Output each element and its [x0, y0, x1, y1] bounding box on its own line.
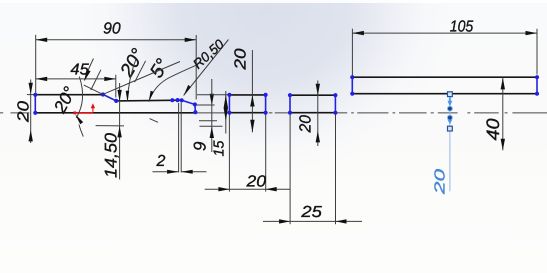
- angular dimension 20deg arc: [75, 77, 83, 137]
- svg-text:90: 90: [103, 20, 121, 37]
- chamfer angle 20deg arc: [126, 60, 136, 102]
- short leader stroke: [150, 119, 159, 123]
- dimension 15: [197, 91, 228, 157]
- dimension 40: [483, 78, 505, 151]
- svg-text:20: 20: [233, 48, 250, 70]
- svg-text:20: 20: [16, 101, 33, 123]
- dimension 45: [36, 61, 116, 97]
- svg-text:R0,50: R0,50: [190, 36, 227, 72]
- blue arrow upper: [448, 98, 453, 107]
- bar part 4 vertex dots: [350, 75, 539, 96]
- bar part 1 outline: [35, 94, 195, 112]
- svg-text:40: 40: [483, 119, 503, 141]
- blue dimension text 20: [432, 169, 448, 196]
- dimension 9: [191, 79, 223, 152]
- dimension 25 horizontal: [263, 114, 362, 224]
- angle 5deg text: [146, 55, 174, 82]
- dimension 90: [36, 20, 197, 99]
- angle 5deg arc: [149, 65, 196, 102]
- chamfer back extension: [84, 85, 103, 94]
- blue arrow lower: [448, 120, 453, 125]
- bar part 1 vertex dots: [33, 92, 197, 115]
- angular dimension 20deg text: [49, 83, 80, 117]
- svg-text:9: 9: [191, 141, 210, 151]
- blue handle square top: [448, 92, 453, 97]
- dimension 20 square 2 vertical: [233, 48, 255, 132]
- svg-text:20: 20: [432, 169, 448, 196]
- dimension 14,50: [96, 83, 124, 180]
- square part 2 outline: [229, 95, 265, 113]
- svg-text:105: 105: [450, 19, 474, 36]
- svg-text:15: 15: [211, 140, 227, 157]
- svg-text:14,50: 14,50: [101, 132, 120, 178]
- svg-text:20: 20: [245, 174, 266, 191]
- blue handle square bottom: [448, 126, 453, 131]
- blue construction dimension line: [449, 96, 451, 191]
- dimension 20 horizontal gap: [205, 114, 291, 192]
- dimension 20 square 3 vertical: [297, 81, 320, 147]
- dimension 2: [153, 103, 207, 174]
- centerline: [0, 112, 547, 114]
- dimension 105: [352, 19, 537, 76]
- chamfer angle 20deg second text: [116, 45, 149, 82]
- square part 2 vertex dots: [227, 93, 267, 115]
- red selected segment: [73, 112, 93, 115]
- svg-text:20: 20: [297, 115, 314, 134]
- bar part 4 outline: [352, 77, 537, 94]
- chamfer extension line: [103, 62, 180, 95]
- square part 3 outline: [290, 95, 335, 113]
- steep extension slash: [91, 70, 101, 90]
- blue dot upper: [447, 106, 453, 112]
- blue dot lower: [447, 115, 453, 121]
- radius R0,50 text: [190, 36, 227, 72]
- angular dimension 20deg arc upper with arrow: [84, 59, 93, 81]
- square part 3 vertex dots: [288, 93, 338, 115]
- chamfer angle 20deg slash: [135, 61, 146, 82]
- dimension 20 left vertical: [16, 80, 34, 144]
- svg-text:25: 25: [300, 204, 322, 221]
- svg-text:2: 2: [156, 153, 166, 170]
- red marker arrow: [91, 103, 95, 112]
- radius R0,50 leader: [184, 40, 229, 96]
